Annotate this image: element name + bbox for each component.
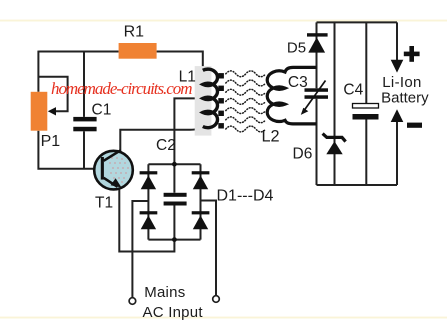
svg-text:D5: D5	[287, 40, 306, 57]
svg-text:R1: R1	[124, 24, 145, 41]
svg-text:C4: C4	[343, 82, 363, 99]
svg-text:D1---D4: D1---D4	[217, 187, 274, 204]
svg-text:homemade-circuits.com: homemade-circuits.com	[51, 79, 193, 98]
svg-text:C2: C2	[156, 137, 176, 154]
svg-text:AC Input: AC Input	[143, 304, 204, 321]
svg-text:Battery: Battery	[381, 89, 429, 106]
svg-text:T1: T1	[95, 195, 113, 212]
svg-text:D6: D6	[293, 146, 313, 163]
svg-text:C3: C3	[288, 74, 308, 91]
svg-text:Mains: Mains	[144, 284, 185, 301]
svg-text:L2: L2	[262, 128, 280, 146]
svg-text:P1: P1	[41, 133, 61, 150]
svg-text:C1: C1	[92, 102, 112, 119]
